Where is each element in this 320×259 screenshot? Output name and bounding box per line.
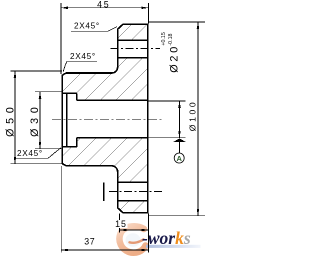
svg-text:Ø50: Ø50 [4,102,16,136]
dim 45 [61,3,148,74]
svg-text:-0.18: -0.18 [168,33,174,45]
hatch hub and flange web (upper half) [11,42,190,112]
svg-text:15: 15 [115,219,127,229]
svg-text:+0.15: +0.15 [161,32,167,45]
e-works logo [119,226,200,252]
lower hole axis [109,190,164,192]
svg-text:A: A [176,154,182,163]
part outline [62,24,147,212]
hatch flange below lower bolt hole [104,178,183,226]
chamfer label bottom [15,148,61,158]
dim D30 [35,92,62,149]
svg-text:Ø30: Ø30 [29,102,41,136]
dim 15 [120,214,149,253]
svg-text:2X45°: 2X45° [74,22,100,31]
upper bolt hole edges [118,40,148,57]
stray vertical edge in lower hole [103,182,105,201]
upper hole axis [111,48,161,50]
svg-text:2X45°: 2X45° [17,149,43,158]
dim 37 [61,166,148,253]
main centre line [52,119,162,121]
dim D50 [10,71,62,164]
svg-text:Ø20: Ø20 [169,44,181,73]
chamfer label mid [63,62,97,72]
chamfer label top [71,27,117,32]
svg-text:Ø100: Ø100 [188,100,198,131]
lower bolt hole edges [118,182,148,201]
svg-text:2X45°: 2X45° [70,52,96,61]
hatch hub and flange web (lower half) [11,118,194,192]
svg-text:45: 45 [97,0,110,10]
datum A leader [148,101,185,153]
svg-text:37: 37 [84,236,95,246]
dim D100 [148,22,205,216]
label D20 with tolerance [161,32,180,73]
bore lines [66,93,68,146]
svg-text:-works: -works [142,228,191,248]
hatch flange above upper bolt hole [104,6,181,52]
